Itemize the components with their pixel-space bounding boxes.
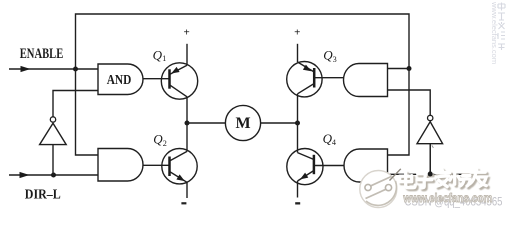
wire: Q3 collector to node B <box>297 94 299 123</box>
svg-text:+: + <box>294 27 300 39</box>
wire: ENABLE down-leg to AND2 input1 <box>76 69 99 155</box>
wire: Q2 collector to node A <box>186 123 188 151</box>
glyph dian <box>402 174 418 190</box>
wire: motor to node B <box>261 122 298 124</box>
svg-text:3: 3 <box>333 55 337 64</box>
wire: DIR-L input lead <box>9 174 98 176</box>
arrow ENABLE <box>21 66 31 72</box>
wire: AND4 output to Q4 base <box>314 165 344 167</box>
wire: Q1 collector to motor node A <box>186 97 188 123</box>
watermark logo circle (elecfans) <box>360 169 401 208</box>
svg-text:4: 4 <box>332 138 336 147</box>
wire: inverter U5 input down to node D <box>429 144 431 174</box>
wire: node C down to AND4 input1 <box>388 69 410 156</box>
svg-text:1: 1 <box>162 54 166 63</box>
wire: node D stub right <box>430 173 476 175</box>
wire: inverter U5 input (redrawn over watermark) <box>429 144 431 174</box>
glyph fa <box>438 171 452 189</box>
wire: Q3 emitter to + <box>297 44 299 62</box>
inverter U1 (left, output up) <box>40 117 67 145</box>
wire: Q4 collector to node B <box>297 123 299 153</box>
wire: Q3 base to AND3 output <box>314 77 343 79</box>
glyph shao <box>452 174 473 188</box>
wire: Q1 emitter to + <box>186 44 188 65</box>
node D <box>428 172 433 177</box>
svg-text:www.elecfans.com: www.elecfans.com <box>403 191 493 205</box>
svg-text:Q: Q <box>153 132 163 147</box>
AND gate U4 (top-right, mirrored) <box>344 64 388 97</box>
inverter U5 (right, output up) <box>417 115 443 143</box>
wire: AND2 output to Q2 base <box>143 164 170 166</box>
wire: AND1 output to Q1 base <box>143 78 170 80</box>
transistor Q2 (NPN) <box>162 149 197 184</box>
svg-text:2: 2 <box>163 139 167 148</box>
svg-text:+: + <box>184 27 190 39</box>
node C (right enable junction) <box>407 66 412 71</box>
wire: node A to motor <box>187 122 225 124</box>
wire: Q4 emitter to - <box>297 181 299 198</box>
wire: Q2 emitter to - <box>186 182 188 198</box>
svg-text:www.elecfans.com: www.elecfans.com <box>490 1 499 64</box>
label - (left bottom) <box>181 202 186 204</box>
wire: AND3 input2 to inverter U5 output <box>388 90 431 115</box>
wire: ENABLE input lead <box>9 68 98 70</box>
AND gate U6 (bottom-right, mirrored) <box>344 149 388 182</box>
node B (motor right) <box>295 121 300 126</box>
transistor Q1 (PNP) <box>161 63 197 99</box>
arrow DIR-L <box>20 172 30 178</box>
svg-text:DIR–L: DIR–L <box>25 187 61 202</box>
glyph zi <box>419 176 434 190</box>
node: ENABLE junction <box>73 67 78 72</box>
artifact tick below right inverter <box>432 145 434 148</box>
transistor Q3 (PNP, mirrored) <box>287 61 322 96</box>
svg-text:M: M <box>235 115 250 132</box>
motor M <box>225 105 260 140</box>
glyph you <box>472 171 488 188</box>
node D (redrawn over watermark) <box>428 172 433 177</box>
wire: inverter U1 input from DIR-L <box>52 145 54 175</box>
svg-text:AND: AND <box>107 72 132 87</box>
node: DIR-L junction <box>51 173 56 178</box>
svg-text:Q: Q <box>153 47 163 62</box>
transistor Q4 (NPN, mirrored) <box>287 149 323 185</box>
svg-text:ENABLE: ENABLE <box>20 46 64 62</box>
AND gate U3 (bottom-left) <box>98 149 143 182</box>
AND gate U2 (top-left, labeled AND) <box>98 64 143 95</box>
wire: AND3 input1 to node C <box>388 68 410 70</box>
watermark vertical (top right corner) <box>498 3 505 51</box>
node A (motor left) <box>185 121 190 126</box>
watermark text white emboss layer <box>400 169 487 188</box>
wire: node D to AND4 input2 <box>388 173 431 175</box>
wire: inverter U1 output to AND1 input2 <box>53 91 98 117</box>
label - (right bottom) <box>295 202 300 204</box>
wire: top routing ENABLE to right side <box>76 14 410 69</box>
watermark text dianzifashaoyou (glyph approximations) <box>402 171 489 190</box>
